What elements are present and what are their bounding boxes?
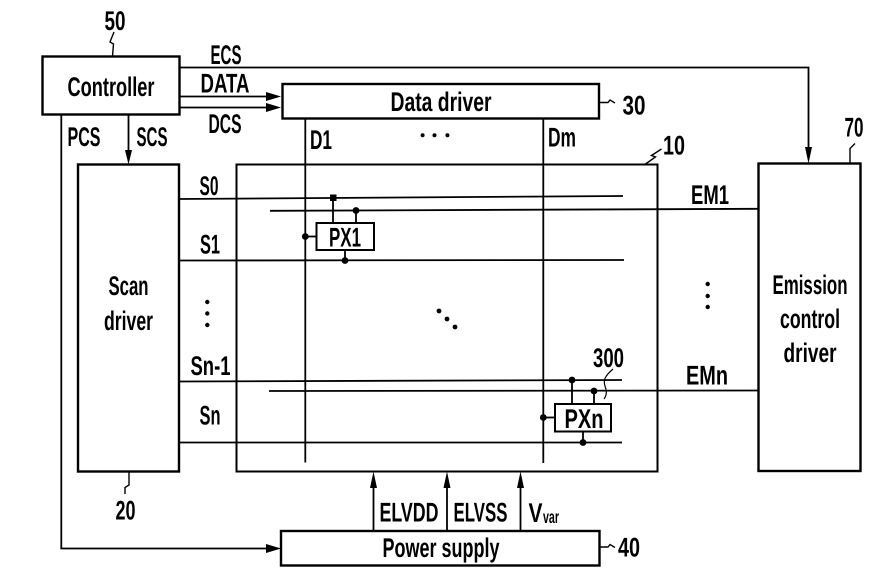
wire EMn emission line (269, 390, 759, 393)
wire Vvar (520, 476, 522, 531)
svg-text:Power supply: Power supply (383, 533, 500, 563)
label Vvar (529, 498, 560, 528)
svg-text:ECS: ECS (211, 40, 242, 70)
junction dot PX1-EM1 (353, 207, 360, 214)
svg-text:PX1: PX1 (329, 223, 361, 253)
wire EM1 emission line (270, 209, 759, 211)
arrowhead DATA (266, 92, 281, 101)
svg-text:DCS: DCS (209, 109, 242, 139)
controller box U50 (43, 57, 180, 115)
svg-text:Data driver: Data driver (391, 87, 492, 117)
leader line 20 (125, 472, 129, 494)
svg-text:EMn: EMn (686, 361, 728, 391)
svg-text:Controller: Controller (68, 72, 155, 102)
wire S1 scan line (179, 259, 624, 262)
display panel box 10 (237, 165, 658, 472)
wire ECS (180, 68, 809, 151)
junction dot PXn-Dm (540, 414, 547, 421)
junction dot PXn-Sn (580, 439, 587, 446)
svg-text:var: var (543, 507, 559, 527)
data driver box U30 (283, 84, 600, 119)
svg-text:PXn: PXn (565, 404, 604, 434)
leader line 40 (600, 545, 616, 548)
svg-text:300: 300 (593, 343, 624, 373)
wire PXn to Sn (582, 432, 584, 443)
wire PXn to EMn (593, 391, 595, 404)
wire PXn to Dm (543, 417, 555, 419)
scan driver box U20 (78, 165, 179, 472)
svg-text:Sn-1: Sn-1 (191, 351, 231, 381)
svg-text:driver: driver (104, 306, 153, 336)
svg-text:S0: S0 (200, 171, 219, 201)
svg-text:20: 20 (116, 496, 136, 526)
svg-text:S1: S1 (200, 230, 220, 260)
wire Dm data line (542, 119, 544, 464)
junction dot PX1-S1 (342, 257, 349, 264)
wire S0 scan line (179, 196, 623, 199)
pixel PXn box (555, 404, 611, 434)
svg-text:40: 40 (618, 533, 640, 563)
svg-text:30: 30 (623, 91, 646, 121)
arrowhead ELVDD into panel (370, 472, 377, 489)
wire PX1 to EM1 (355, 211, 357, 224)
leader line 300 (604, 369, 613, 399)
svg-text:EM1: EM1 (691, 180, 729, 210)
wire Sn-1 scan line (179, 380, 622, 382)
svg-text:driver: driver (784, 338, 837, 368)
wire SCS (128, 115, 130, 153)
junction dot PX1-D1 (302, 233, 309, 240)
svg-text:control: control (780, 304, 840, 334)
svg-text:70: 70 (845, 113, 864, 143)
wire PX1 to S1 (344, 250, 346, 261)
pixel PX1 box (317, 223, 375, 253)
arrowhead PCS into power supply (266, 544, 281, 553)
leader line 10 (646, 149, 662, 164)
emission control driver box U70 (759, 164, 861, 472)
arrowhead Vvar into panel (517, 472, 524, 489)
wire ELVSS (446, 476, 448, 531)
wire Sn scan line (179, 442, 622, 444)
wire PXn to Sn-1 (571, 380, 573, 404)
svg-text:ELVSS: ELVSS (454, 498, 508, 528)
junction dot PXn-EMn (591, 388, 598, 395)
power supply box U40 (281, 531, 600, 566)
arrowhead SCS into scan driver (125, 150, 132, 165)
ellipsis dots between D1 and Dm (421, 133, 450, 137)
wire PX1 to D1 (305, 236, 316, 238)
junction dot PX1-S0 (330, 195, 337, 202)
svg-text:Sn: Sn (200, 401, 221, 431)
vertical ellipsis between S1 and Sn-1 (205, 300, 209, 327)
wire DCS (180, 107, 270, 109)
svg-text:Dm: Dm (548, 123, 576, 153)
svg-text:Scan: Scan (109, 271, 149, 301)
vertical ellipsis between EM1 and EMn (706, 282, 710, 309)
wire PCS (61, 115, 269, 549)
svg-text:D1: D1 (310, 125, 332, 155)
svg-text:V: V (529, 498, 543, 528)
diagonal ellipsis panel center (437, 309, 458, 330)
svg-text:DATA: DATA (201, 69, 250, 99)
svg-text:10: 10 (663, 131, 685, 161)
wire D1 data line (304, 119, 306, 463)
junction dot PXn-Sn-1 (569, 377, 576, 384)
wire ELVDD (373, 476, 375, 531)
arrowhead DCS (266, 103, 281, 112)
svg-text:Emission: Emission (773, 270, 848, 300)
svg-text:PCS: PCS (68, 122, 101, 152)
leader line 70 (850, 144, 855, 164)
wire DATA (180, 96, 270, 98)
wire PX1 to S0 (332, 198, 334, 223)
leader line 30 (600, 100, 616, 103)
svg-text:50: 50 (105, 6, 126, 36)
svg-text:ELVDD: ELVDD (380, 498, 439, 528)
arrowhead ELVSS into panel (444, 472, 451, 489)
arrowhead ECS into emission driver (805, 147, 812, 164)
svg-text:SCS: SCS (137, 122, 168, 152)
leader line 50 (110, 32, 114, 57)
